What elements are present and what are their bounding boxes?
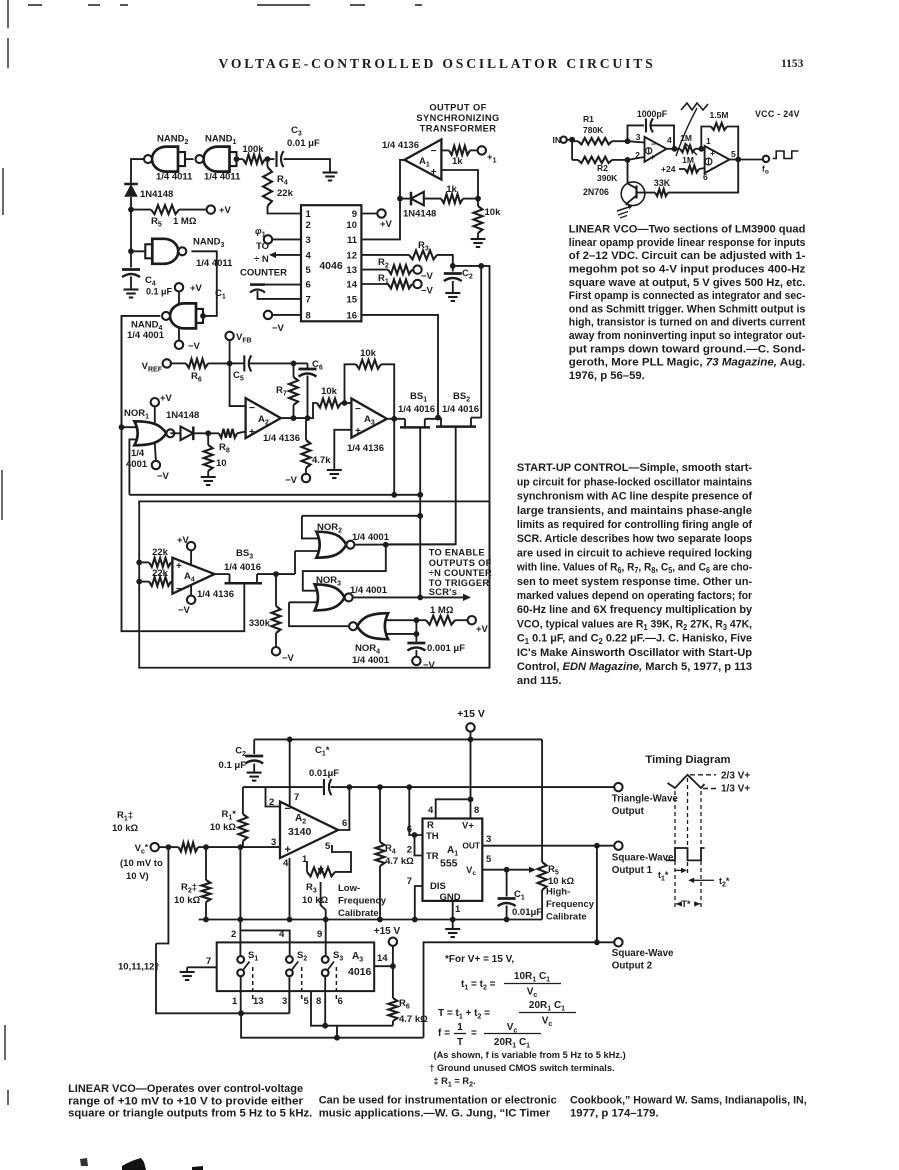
bottom row P pins 1 and 3: [156, 944, 289, 1017]
svg-text:2N706: 2N706: [583, 187, 609, 197]
555 pin5 Vc row: [466, 854, 536, 877]
555 pin4 and pin8 wires: [428, 739, 479, 818]
svg-text:NAND1: NAND1: [205, 134, 236, 147]
phi1 terminal at pin 3: [255, 226, 301, 244]
svg-text:5: 5: [325, 841, 331, 852]
resistor R7: [276, 363, 298, 421]
svg-text:TO: TO: [256, 241, 269, 252]
ground hatch below transistor: [617, 207, 629, 218]
svg-text:Calibrate: Calibrate: [546, 912, 587, 923]
op-amp A2 1/4 4136: [246, 398, 300, 444]
IC 4046 phase-locked loop: [301, 205, 361, 321]
svg-text:2: 2: [306, 220, 311, 231]
capacitor C2 node: [450, 263, 484, 269]
svg-text:TR: TR: [426, 851, 439, 862]
svg-text:2/3 V+: 2/3 V+: [721, 771, 750, 782]
output rail with C1* row: [243, 784, 619, 790]
svg-text:1M: 1M: [682, 155, 694, 165]
svg-text:Cookbook,” Howard W. Sams, Ind: Cookbook,” Howard W. Sams, Indianapolis,…: [570, 1094, 807, 1106]
svg-text:10: 10: [216, 458, 227, 469]
svg-text:1/4: 1/4: [131, 448, 145, 459]
svg-text:+: +: [176, 561, 182, 572]
resistor R8: [208, 429, 245, 455]
svg-text:−: −: [285, 803, 291, 815]
svg-text:7: 7: [407, 876, 412, 887]
wire pin 11 to A1 output node: [361, 199, 400, 240]
transistor 2N706: [583, 160, 645, 209]
svg-text:sen to meet system response ti: sen to meet system response time. Other …: [517, 576, 752, 588]
diode 1N4148 D3: [166, 410, 211, 440]
svg-text:22k: 22k: [277, 188, 294, 199]
bilateral switch BS3 1/4 4016: [215, 548, 296, 583]
svg-text:f =: f =: [438, 1028, 450, 1039]
svg-text:VOLTAGE-CONTROLLED OSCILLATOR: VOLTAGE-CONTROLLED OSCILLATOR CIRCUITS: [219, 56, 656, 71]
bilateral switch BS1 1/4 4016: [398, 391, 435, 427]
-V terminal at pin 8: [264, 311, 301, 334]
svg-text:−V: −V: [188, 341, 201, 352]
svg-text:2: 2: [269, 797, 274, 808]
svg-text:GND: GND: [439, 892, 460, 903]
svg-text:Output 2: Output 2: [612, 961, 653, 972]
svg-text:are used in circuit to achieve: are used in circuit to achieve required …: [517, 547, 752, 559]
svg-text:Can be used for instrumentatio: Can be used for instrumentation or elect…: [319, 1094, 557, 1106]
resistor 10k at A3 input: [308, 386, 352, 418]
svg-text:marked values depend on operat: marked values depend on operating factor…: [517, 590, 753, 602]
svg-text:+: +: [285, 844, 291, 856]
NOR4 gate 1/4 4001: [349, 613, 390, 666]
svg-text:−: −: [355, 404, 361, 415]
pot scribble arrow: [676, 103, 708, 156]
svg-text:5: 5: [304, 996, 310, 1007]
svg-text:1/3 V+: 1/3 V+: [721, 784, 750, 795]
svg-text:1N4148: 1N4148: [140, 189, 173, 200]
NAND3 gate 1/4 4011: [128, 237, 233, 270]
svg-text:1/4 4136: 1/4 4136: [347, 443, 384, 454]
wire A1 output down to diode node: [397, 160, 404, 202]
svg-text:LINEAR VCO—Operates over contr: LINEAR VCO—Operates over control-voltage: [68, 1083, 303, 1095]
svg-text:ond as Schmitt trigger. When S: ond as Schmitt trigger. When Schmitt out…: [569, 303, 806, 315]
svg-text:8: 8: [316, 996, 321, 1007]
timing square wave 1: [666, 848, 705, 860]
svg-text:÷ N: ÷ N: [254, 254, 269, 265]
svg-text:† Ground unused CMOS switch te: † Ground unused CMOS switch terminals.: [429, 1063, 614, 1073]
wire A2 output row: [281, 417, 308, 419]
svg-text:4: 4: [306, 251, 312, 262]
svg-text:1.5M: 1.5M: [710, 110, 729, 120]
input low side wire: [156, 847, 168, 943]
svg-text:10k: 10k: [485, 207, 502, 218]
svg-text:−: −: [431, 146, 437, 157]
VFB terminal: [225, 332, 251, 364]
svg-text:OUTPUTS OF: OUTPUTS OF: [429, 558, 492, 568]
svg-text:7: 7: [206, 956, 211, 967]
svg-text:1000pF: 1000pF: [637, 109, 668, 119]
svg-text:−V: −V: [423, 660, 436, 671]
op-amp A3 1/4 4136: [347, 399, 387, 455]
wire BS3 to NOR2 bottom input: [294, 551, 296, 574]
svg-text:0.01 μF: 0.01 μF: [287, 138, 320, 149]
capacitor C4 0.1 uF: [122, 251, 173, 296]
svg-text:22k: 22k: [152, 547, 169, 558]
switch S1: [237, 950, 258, 1013]
feedback line A to NOR1: [129, 492, 420, 498]
bottom caption left column: [68, 1083, 312, 1119]
svg-text:5: 5: [486, 854, 492, 865]
1/3 V+ dashed level: [703, 784, 750, 795]
NOR4 input wires: [386, 620, 419, 637]
svg-text:3: 3: [486, 834, 491, 845]
-V terminal below NOR1: [152, 444, 170, 483]
svg-text:4: 4: [667, 135, 672, 145]
svg-text:13: 13: [346, 265, 357, 276]
svg-text:1 MΩ: 1 MΩ: [430, 605, 454, 616]
svg-text:NAND2: NAND2: [157, 134, 188, 147]
svg-text:C1​ 0.1 μF, and C2​ 0.22 μF.—J: C1​ 0.1 μF, and C2​ 0.22 μF.—J. C. Hanis…: [517, 633, 752, 647]
enclosing box lower section: [139, 501, 489, 667]
svg-text:330k: 330k: [249, 618, 271, 629]
NOR3 bottom input wire from NOR4: [289, 601, 317, 603]
resistor R1++ 10k input: [112, 810, 209, 852]
A3 output node: [387, 416, 405, 422]
svg-text:7: 7: [294, 792, 299, 803]
capacitor 1000pF feedback: [628, 109, 675, 149]
svg-text:1976, p 56–59.: 1976, p 56–59.: [569, 370, 645, 382]
resistor R1 to -V: [361, 273, 433, 297]
Vc* input terminal: [120, 843, 171, 882]
svg-text:SYNCHRONIZING: SYNCHRONIZING: [416, 113, 499, 123]
A2 pin4 to ground row: [283, 858, 292, 922]
svg-text:+15 V: +15 V: [457, 708, 485, 720]
svg-text:+: +: [249, 427, 255, 438]
svg-text:3: 3: [306, 235, 311, 246]
LM3900 op-amp 1: [635, 132, 672, 162]
svg-text:6: 6: [703, 172, 708, 182]
svg-text:1N4148: 1N4148: [403, 209, 436, 220]
IN terminal: [553, 135, 575, 145]
svg-text:12: 12: [346, 251, 357, 262]
+V terminal above NAND4: [175, 283, 203, 304]
svg-text:VCC - 24V: VCC - 24V: [755, 109, 800, 119]
4016 bottom pin labels: [232, 996, 343, 1007]
svg-text:390K: 390K: [597, 173, 618, 183]
svg-text:4046: 4046: [319, 260, 343, 272]
svg-text:TH: TH: [426, 831, 439, 842]
NOR4 output wire to NOR3 input: [289, 602, 349, 626]
wire A2 inverting input: [230, 363, 246, 406]
svg-text:DIS: DIS: [430, 881, 446, 892]
timing dashed verticals: [675, 778, 701, 908]
svg-text:−: −: [176, 584, 182, 595]
svg-text:Timing Diagram: Timing Diagram: [645, 754, 730, 766]
2/3 V+ dashed level: [690, 771, 750, 782]
NOR2 bottom input wire: [295, 550, 319, 552]
resistor 10 to ground: [204, 433, 227, 477]
svg-text:VCO, typical values are R1​ 39: VCO, typical values are R1​ 39K, R2​ 27K…: [517, 618, 752, 632]
op-amp A2 3140: [280, 802, 338, 859]
svg-text:IC's Make Ainsworth Oscillator: IC's Make Ainsworth Oscillator with Star…: [517, 647, 752, 659]
svg-text:R2: R2: [597, 163, 608, 173]
Square-Wave Output 1 terminal: [612, 842, 674, 877]
resistor 22k bottom at A4: [136, 568, 172, 586]
wire D1 node down to NAND3 inputs: [130, 210, 132, 252]
resistor R1* 10k: [210, 787, 248, 847]
t1 arrow: [658, 868, 687, 883]
LM3900 op-amp 2: [703, 136, 736, 182]
svg-text:linear opamp provide linear re: linear opamp provide linear response for…: [569, 237, 806, 249]
555 pin3 OUT row: [482, 834, 614, 849]
svg-text:LINEAR VCO—Two sections of LM3: LINEAR VCO—Two sections of LM3900 quad: [569, 224, 806, 236]
svg-text:−V: −V: [421, 271, 434, 282]
svg-text:Square-Wave: Square-Wave: [612, 948, 674, 959]
4016 pins 10,11,12 and 7 grounded: [118, 956, 217, 980]
svg-text:4: 4: [428, 805, 434, 816]
555 pin6 TH and pin2 TR stubs: [407, 824, 423, 856]
A2 offset null network R3 pot: [302, 841, 351, 906]
wire BS3 source loop to NAND4 feedback: [122, 316, 245, 631]
switch S3: [322, 950, 344, 1026]
ground below C3: [323, 173, 338, 181]
wire pin 16 to BS1/BS2 node: [361, 315, 438, 418]
svg-text:with line. Values of R6​, R7​,: with line. Values of R6​, R7​, R8​, C5​,…: [516, 562, 752, 576]
svg-text:20R1 C1: 20R1 C1: [494, 1037, 530, 1050]
Low-Frequency Calibrate label: [338, 883, 387, 919]
NOR2 output node: [354, 542, 455, 548]
svg-text:square or triangle outputs fro: square or triangle outputs from 5 Hz to …: [68, 1107, 312, 1119]
svg-text:14: 14: [346, 280, 357, 291]
svg-text:1/4 4011: 1/4 4011: [204, 172, 241, 183]
svg-text:−V: −V: [272, 323, 285, 334]
resistor R4 4.7k: [376, 787, 415, 922]
NAND2 gate 1/4 4011: [144, 134, 193, 183]
svg-text:1/4 4016: 1/4 4016: [398, 404, 435, 415]
svg-text:16: 16: [346, 311, 357, 322]
svg-text:large transients, and maintain: large transients, and maintains phase-an…: [517, 505, 752, 517]
TO ENABLE OUTPUTS note: [429, 548, 492, 597]
svg-text:1: 1: [457, 1022, 463, 1033]
Square-Wave-2 row to switch network: [424, 942, 597, 1037]
wire A3 noninverting input to ground: [334, 430, 351, 470]
svg-text:−V: −V: [285, 475, 298, 486]
wire pin7 V+ from rail: [290, 739, 300, 809]
bottom row Q pin 8 to R6: [311, 991, 393, 1028]
svg-text:V+: V+: [462, 821, 474, 832]
wire IN node down to R2: [571, 140, 573, 160]
svg-text:1: 1: [306, 209, 312, 220]
TO divide-N COUNTER arrow at pin 4: [240, 241, 301, 279]
bottom scan blob: [122, 1158, 146, 1170]
ground below 10k: [471, 239, 486, 247]
ground row: [199, 919, 542, 921]
svg-text:4016: 4016: [348, 966, 372, 978]
resistor R6 4.7k: [388, 966, 428, 1025]
svg-text:SCR. Article describes how two: SCR. Article describes how two separate …: [517, 533, 752, 545]
svg-text:1/4 4136: 1/4 4136: [263, 433, 300, 444]
svg-text:megohm pot so 4-V input produc: megohm pot so 4-V input produces 400-Hz: [569, 264, 806, 276]
svg-text:Low-: Low-: [338, 883, 360, 894]
svg-text:555: 555: [440, 858, 458, 870]
diode 1N4148 D1: [124, 184, 173, 200]
ground below C2: [247, 773, 262, 781]
svg-text:OUT: OUT: [462, 841, 481, 851]
svg-text:9: 9: [352, 209, 357, 220]
square wave symbol at output: [773, 151, 799, 159]
svg-text:10 kΩ: 10 kΩ: [210, 822, 236, 833]
bottom row R: [241, 1013, 423, 1040]
VREF terminal: [142, 359, 186, 373]
formula notes: [429, 954, 625, 1089]
+15V top rail: [254, 737, 542, 743]
resistor R6: [186, 359, 233, 384]
wire C2 node down to BS2: [480, 266, 482, 418]
OUTPUT OF SYNCHRONIZING TRANSFORMER label: [416, 103, 499, 134]
svg-text:10R1 C1: 10R1 C1: [514, 971, 550, 984]
svg-text:+V: +V: [177, 535, 190, 546]
svg-text:+V: +V: [219, 205, 232, 216]
svg-text:1 MΩ: 1 MΩ: [173, 216, 197, 227]
pin2 stub to A2 inverting input: [266, 787, 281, 808]
svg-text:1: 1: [455, 904, 461, 915]
resistor R4 22k: [263, 159, 301, 213]
svg-text:−: −: [651, 139, 656, 149]
R3 wiper arrow to switch S3: [318, 868, 329, 955]
svg-text:7: 7: [306, 295, 311, 306]
svg-text:put ramps down toward ground.—: put ramps down toward ground.—C. Sond-: [569, 343, 806, 355]
t2 arrow: [688, 876, 730, 889]
NOR3 gate 1/4 4001: [315, 575, 388, 610]
wire NAND3 output to NAND4 inputs: [191, 251, 216, 318]
svg-text:0.01μF: 0.01μF: [309, 768, 339, 779]
resistor 33K base: [637, 160, 739, 197]
ground below C2: [445, 293, 460, 301]
svg-text:1M: 1M: [680, 133, 692, 143]
resistor R3: [361, 240, 452, 266]
R5 pot 10k high frequency calibrate: [538, 739, 595, 922]
svg-text:14: 14: [377, 953, 388, 964]
node at D1 anode: [128, 197, 134, 213]
svg-text:3: 3: [636, 132, 641, 142]
svg-text:T*: T*: [682, 899, 691, 909]
svg-text:(10 mV to: (10 mV to: [120, 858, 163, 869]
diode 1N4148 D2: [400, 192, 441, 220]
op-amp A1 1/4 4136: [382, 139, 441, 179]
op-amp A4 1/4 4136: [172, 558, 234, 600]
svg-text:+15 V: +15 V: [374, 926, 401, 937]
capacitor C1 at pins 6-7: [215, 285, 301, 301]
wire NAND1 output to NAND2 inputs: [185, 158, 194, 160]
svg-text:10,11,12†: 10,11,12†: [118, 962, 160, 973]
svg-text:Square-Wave: Square-Wave: [612, 853, 674, 864]
wire BS1 source down V1: [417, 427, 423, 597]
svg-text:1k: 1k: [452, 156, 463, 167]
555 pin7 DIS stub: [407, 876, 423, 922]
svg-text:limits as required for control: limits as required for controlling firin…: [517, 519, 752, 531]
svg-text:6: 6: [338, 996, 343, 1007]
-V terminal below A4: [178, 585, 195, 616]
svg-text:0.1 μF: 0.1 μF: [219, 760, 247, 771]
wire NAND2 output to diode D1: [131, 159, 143, 183]
svg-text:First opamp is connected as in: First opamp is connected as integrator a…: [569, 290, 806, 302]
NOR3 output arrow line: [353, 594, 471, 601]
LINEAR VCO caption text: [569, 224, 806, 382]
resistor 330k to -V: [249, 574, 295, 664]
resistor 1k at A1 inverting input: [441, 146, 496, 167]
svg-text:T: T: [457, 1037, 463, 1048]
svg-text:1/4 4016: 1/4 4016: [224, 562, 261, 573]
ground below C4: [124, 290, 139, 298]
svg-text:9: 9: [317, 929, 322, 940]
svg-text:4.7k: 4.7k: [312, 455, 331, 466]
svg-text:1/4 4011: 1/4 4011: [196, 258, 233, 269]
Timing Diagram title: [645, 754, 730, 766]
svg-text:6: 6: [342, 818, 347, 829]
svg-text:4.7 kΩ: 4.7 kΩ: [385, 856, 414, 867]
VCC label: [755, 109, 800, 119]
resistor R5 1 Mohm: [131, 205, 232, 229]
svg-text:1k: 1k: [446, 184, 457, 195]
svg-text:=: =: [471, 1028, 477, 1039]
svg-text:10: 10: [346, 220, 357, 231]
svg-text:Output: Output: [612, 806, 645, 817]
svg-text:+24: +24: [661, 164, 676, 174]
IC 4016 quad switch box: [217, 929, 375, 991]
wire A1 noninverting input to feedback node: [441, 170, 478, 199]
svg-text:22k: 22k: [152, 568, 169, 579]
resistor 22k top at A4: [136, 547, 172, 567]
svg-text:11: 11: [347, 235, 358, 246]
bottom caption right column: [570, 1094, 807, 1119]
svg-text:Calibrate: Calibrate: [338, 908, 379, 919]
svg-text:+V: +V: [190, 283, 203, 294]
svg-text:away from noninverting input s: away from noninverting input so integrat…: [569, 330, 806, 342]
svg-text:TRANSFORMER: TRANSFORMER: [420, 124, 497, 134]
svg-text:4.7 kΩ: 4.7 kΩ: [399, 1014, 428, 1025]
resistor R1 780K: [572, 114, 630, 144]
svg-text:6: 6: [306, 280, 311, 291]
svg-text:10 kΩ: 10 kΩ: [302, 895, 328, 906]
svg-text:13: 13: [253, 996, 264, 1007]
svg-text:33K: 33K: [654, 178, 671, 188]
svg-text:60-Hz line and 6X frequency mu: 60-Hz line and 6X frequency multiplicati…: [517, 604, 753, 616]
-V terminal below NAND4: [175, 328, 201, 352]
svg-text:R: R: [427, 820, 434, 831]
resistor 100k: [234, 144, 265, 164]
bottom caption middle column: [319, 1094, 557, 1119]
IC 555 timer box: [423, 819, 483, 904]
svg-text:Output 1: Output 1: [612, 865, 653, 876]
svg-text:T = t1 + t2 =: T = t1 + t2 =: [438, 1008, 490, 1021]
resistor 10k to ground: [474, 199, 502, 239]
svg-text:3: 3: [271, 837, 276, 848]
+V terminal above A4: [177, 535, 195, 566]
variable resistor 1M: [680, 133, 704, 155]
resistor 1k feedback: [441, 184, 481, 203]
svg-text:+V: +V: [160, 393, 173, 404]
svg-text:Triangle-Wave: Triangle-Wave: [612, 794, 679, 805]
wire NAND4 output to left feedback rail: [122, 316, 161, 427]
4016 pin14 to +15V and R6: [374, 926, 401, 969]
svg-text:1/4 4136: 1/4 4136: [197, 589, 234, 600]
op2 output node to fo terminal: [730, 156, 770, 176]
svg-text:up circuit for phase-locked os: up circuit for phase-locked oscillator m…: [517, 476, 752, 488]
svg-text:music applications.—W. G. Jung: music applications.—W. G. Jung, “IC Time…: [319, 1108, 551, 1120]
svg-text:synchronism with AC line despi: synchronism with AC line despite presenc…: [517, 491, 752, 503]
svg-text:÷N COUNTER: ÷N COUNTER: [429, 568, 492, 578]
capacitor C1 0.01uF at Vc: [498, 870, 543, 923]
svg-text:−V: −V: [178, 605, 191, 616]
svg-text:START-UP CONTROL—Simple, smoot: START-UP CONTROL—Simple, smooth start-: [517, 462, 752, 474]
capacitor C6: [294, 359, 323, 421]
wire pin3 node down to 4016 S1: [238, 847, 244, 955]
